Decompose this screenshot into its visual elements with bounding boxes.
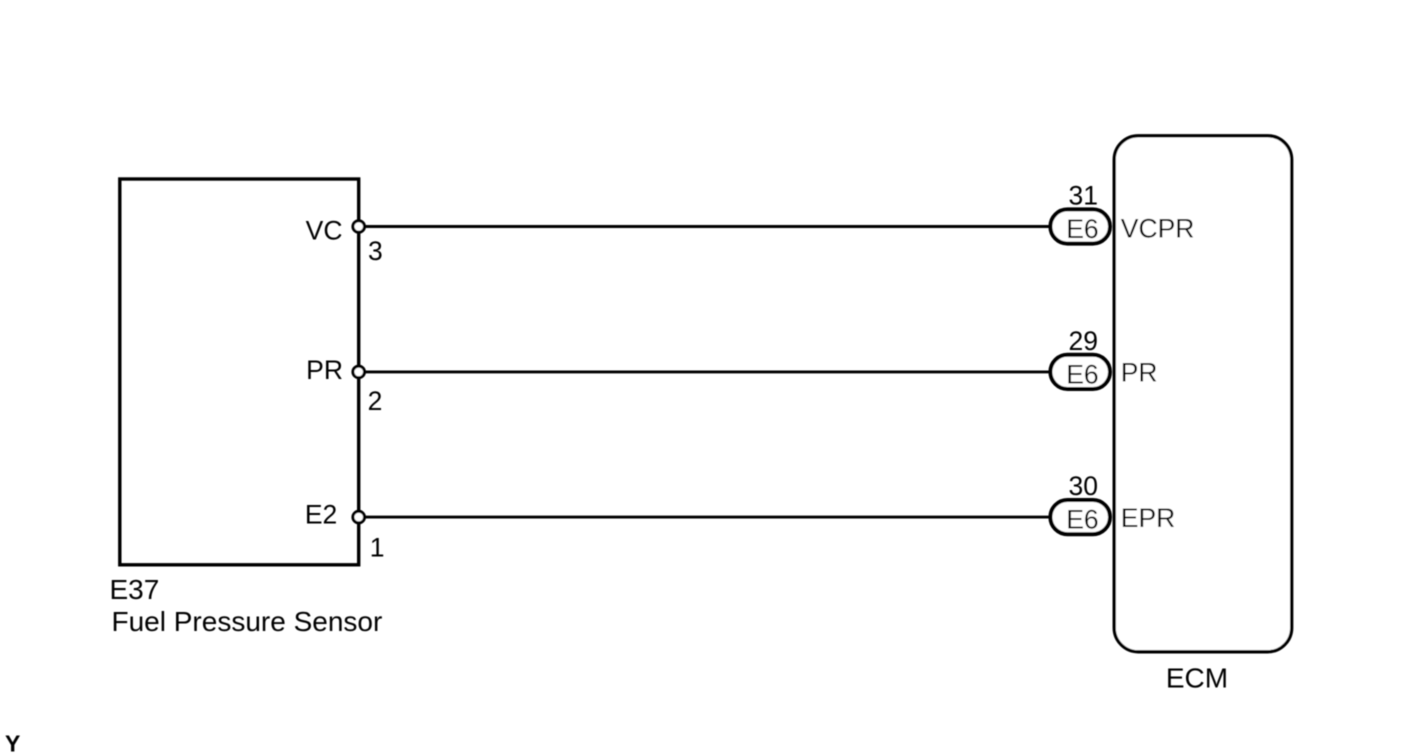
- svg-text:VC: VC: [306, 216, 343, 246]
- svg-text:3: 3: [368, 236, 383, 266]
- svg-text:ECM: ECM: [1166, 663, 1228, 694]
- svg-text:30: 30: [1068, 471, 1097, 501]
- pin PR terminal circle: [353, 366, 365, 378]
- pin E2 terminal circle: [353, 511, 365, 523]
- svg-text:2: 2: [368, 386, 383, 416]
- svg-text:E6: E6: [1066, 214, 1098, 244]
- svg-text:VCPR: VCPR: [1121, 214, 1195, 244]
- svg-text:Y: Y: [5, 731, 20, 756]
- connector oval E6 pin 31: [1050, 209, 1110, 243]
- svg-text:E37: E37: [110, 574, 160, 605]
- svg-text:E2: E2: [305, 500, 337, 530]
- wire E2 to EPR: [359, 516, 1052, 519]
- connector oval E6 pin 30: [1050, 500, 1110, 534]
- svg-text:Fuel Pressure Sensor: Fuel Pressure Sensor: [112, 606, 383, 637]
- pin VC terminal circle: [353, 221, 365, 233]
- svg-text:PR: PR: [1121, 358, 1158, 388]
- svg-text:PR: PR: [306, 355, 343, 385]
- svg-text:29: 29: [1068, 326, 1097, 356]
- ECM body: [1114, 136, 1292, 652]
- svg-text:E6: E6: [1066, 359, 1098, 389]
- svg-text:E6: E6: [1066, 505, 1098, 535]
- wire VC to VCPR: [359, 225, 1052, 228]
- svg-text:31: 31: [1068, 181, 1097, 211]
- wire PR to PR: [359, 370, 1052, 373]
- connector E37 Fuel Pressure Sensor body: [120, 179, 359, 565]
- svg-text:EPR: EPR: [1121, 503, 1176, 533]
- connector oval E6 pin 29: [1050, 355, 1110, 389]
- svg-text:1: 1: [370, 533, 385, 563]
